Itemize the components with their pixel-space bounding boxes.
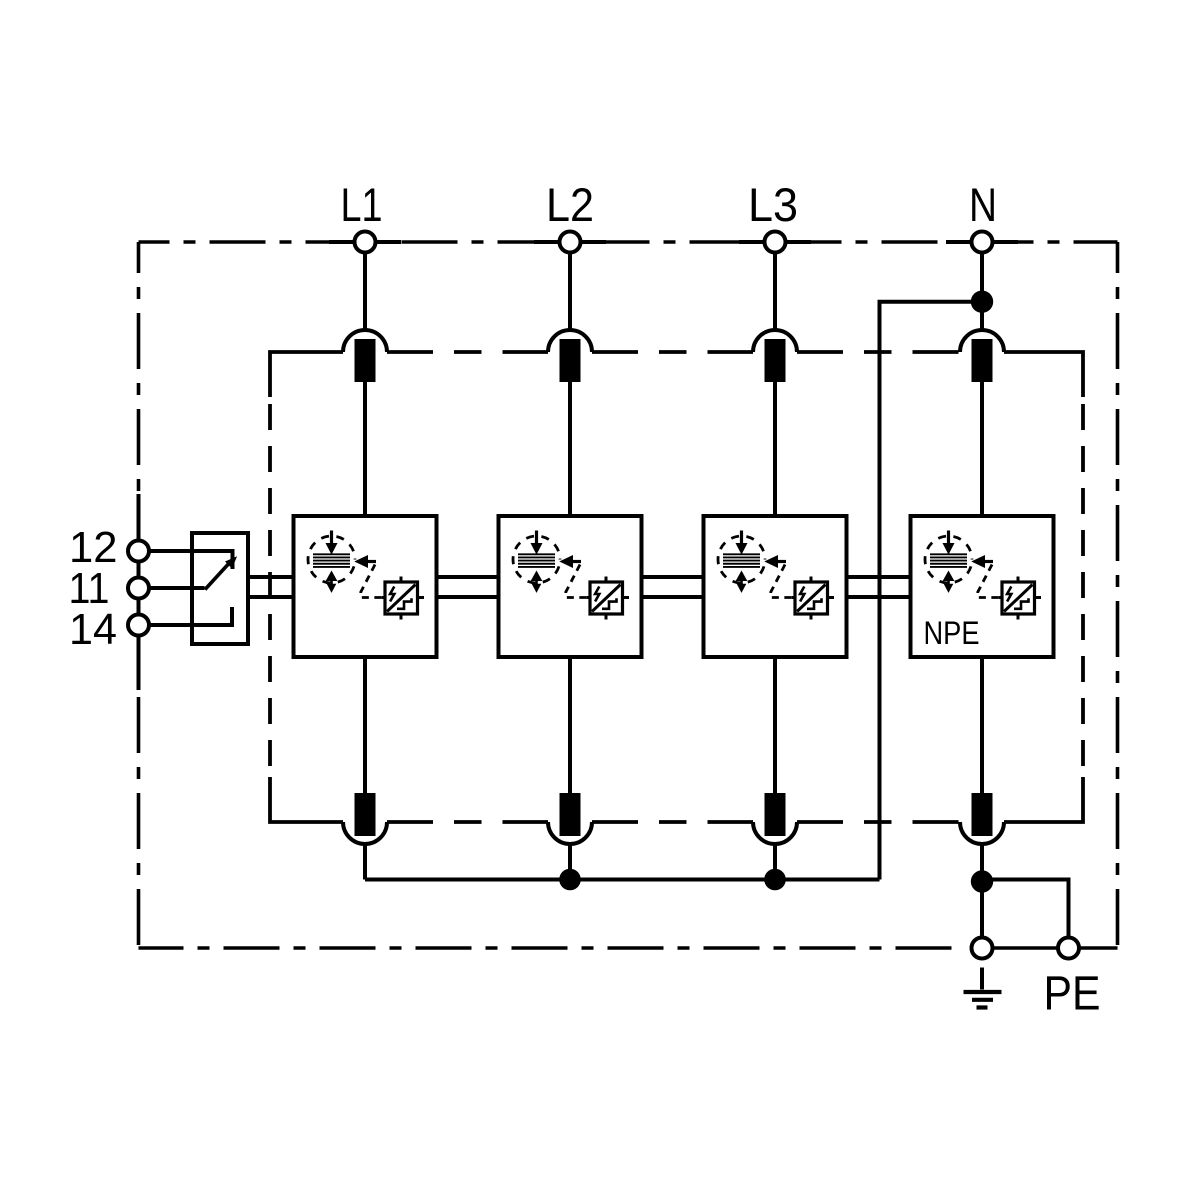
terminal 11 (128, 578, 149, 599)
terminal 14 (128, 615, 149, 636)
varistor lightning pictogram L1 (390, 587, 394, 602)
base part boundary top dashed segment 1 (387, 350, 548, 354)
spark gap enclosure dashed circle L3 (718, 536, 765, 583)
spark gap electrode stack L1 (313, 553, 350, 555)
terminal L3 (765, 232, 786, 253)
node N junction to PE path (971, 291, 993, 313)
wire N junction to PE terminal link (982, 880, 1069, 938)
plug contact socket arc lower L3 (753, 822, 797, 844)
plug contact socket arc upper L1 (343, 330, 387, 352)
wire lower plug to equipotential bus L1 (363, 845, 367, 880)
SPD module box L3 (704, 516, 847, 657)
svg-text:L3: L3 (748, 178, 798, 231)
terminal L1 (355, 232, 376, 253)
trigger control dashed link L3 (771, 565, 795, 598)
wire upper plug to module L1 (363, 382, 367, 516)
wire module to lower plug L3 (773, 657, 777, 793)
terminal L2 (560, 232, 581, 253)
base part boundary top-right corner segment (1004, 352, 1083, 397)
svg-text:L2: L2 (546, 178, 594, 231)
wire monitoring lower segment 1 (248, 595, 294, 599)
plug contact pin lower L2 (560, 793, 581, 836)
varistor surge-step pictogram L3 (807, 598, 822, 609)
SPD module box L1 (294, 516, 437, 657)
wire monitoring lower segment 3 (642, 595, 704, 599)
wire terminal 12 to NC contact (149, 551, 233, 569)
plug contact socket arc lower L2 (548, 822, 592, 844)
plug contact socket arc lower N (960, 822, 1004, 844)
wire L2 terminal drop (568, 252, 572, 332)
SPD module box N (911, 516, 1054, 657)
varistor surge-step pictogram L2 (602, 598, 617, 609)
trigger arrow L1 (356, 556, 368, 567)
wire stub terminal L1 (329, 240, 401, 244)
ground terminal circle (972, 938, 993, 959)
spark gap upper arrow N (947, 531, 950, 545)
wire stub terminal L2 (534, 240, 606, 244)
spark gap lower double arrow L3 (737, 572, 747, 581)
base part boundary right dashed edge (1081, 404, 1085, 770)
wire upper plug to module L3 (773, 382, 777, 516)
device enclosure border left edge (137, 242, 141, 948)
spark gap lower double arrow L1 (327, 572, 337, 581)
spark gap lower double arrow L2 (532, 572, 542, 581)
wire upper plug to module N (980, 382, 984, 516)
node junction L2 bus (559, 869, 581, 891)
base part boundary left dashed edge (268, 404, 272, 770)
plug contact socket arc upper L3 (753, 330, 797, 352)
base part boundary bottom dashed segment 2 (592, 820, 753, 824)
svg-text:NPE: NPE (924, 615, 980, 651)
spark gap electrode stack N (930, 553, 967, 555)
wire monitoring upper segment 4 (847, 575, 911, 579)
trigger control dashed link N (978, 565, 1002, 598)
wire N junction to upper plug contact (980, 302, 984, 332)
SPD module box L2 (499, 516, 642, 657)
varistor element L2 (590, 582, 623, 614)
plug contact pin lower L1 (355, 793, 376, 836)
spark gap electrode stack L2 (518, 553, 555, 555)
wire module to lower plug L1 (363, 657, 367, 793)
spark gap upper arrow L1 (330, 531, 333, 545)
wire monitoring upper segment 3 (642, 575, 704, 579)
wire bus riser to N junction (880, 302, 972, 880)
base part boundary bottom dashed segment 3 (797, 820, 960, 824)
plug contact socket arc upper N (960, 330, 1004, 352)
node junction N bottom (971, 870, 993, 892)
wire stub terminal L3 (739, 240, 811, 244)
svg-text:PE: PE (1044, 968, 1101, 1021)
wire module to lower plug N (980, 657, 984, 793)
svg-text:L1: L1 (341, 178, 383, 231)
varistor element L1 (385, 582, 418, 614)
wire upper plug to module L2 (568, 382, 572, 516)
plug contact pin lower N (972, 793, 993, 836)
terminal 12 (128, 541, 149, 562)
wire PE bottom solid segment (980, 946, 1118, 950)
trigger control dashed link L1 (361, 565, 385, 598)
plug contact pin upper L2 (560, 339, 581, 382)
wire equipotential bus (365, 878, 880, 882)
trigger arrow N (973, 556, 985, 567)
wire lower plug to equipotential bus L2 (568, 845, 572, 880)
plug contact pin lower L3 (765, 793, 786, 836)
varistor element L3 (795, 582, 828, 614)
changeover contact box FM (192, 533, 248, 644)
svg-text:14: 14 (69, 605, 117, 654)
plug contact pin upper L3 (765, 339, 786, 382)
varistor surge-step pictogram L1 (397, 598, 412, 609)
base part boundary bottom dashed segment 1 (387, 820, 548, 824)
wire L3 terminal drop (773, 252, 777, 332)
spark gap enclosure dashed circle L1 (308, 536, 355, 583)
wire N junction to ground terminal (980, 881, 984, 938)
spark gap enclosure dashed circle L2 (513, 536, 560, 583)
varistor element N (1002, 582, 1035, 614)
spark gap upper arrow L3 (740, 531, 743, 545)
plug contact socket arc lower L1 (343, 822, 387, 844)
varistor surge-step pictogram N (1014, 598, 1029, 609)
base part boundary bottom-right corner segment (1004, 777, 1083, 822)
wire monitoring upper segment 1 (248, 575, 294, 579)
wire lower plug to equipotential bus N (980, 845, 984, 882)
changeover contact moving arm (205, 560, 233, 590)
varistor lightning pictogram N (1007, 587, 1011, 602)
spark gap enclosure dashed circle N (925, 536, 972, 583)
wire terminal 14 to NO contact (149, 607, 233, 625)
svg-text:N: N (969, 178, 997, 231)
plug contact pin upper L1 (355, 339, 376, 382)
terminal PE (1058, 938, 1079, 959)
wire N terminal to junction (980, 252, 984, 302)
wire stub signalling terminals (137, 494, 141, 690)
wire monitoring lower segment 4 (847, 595, 911, 599)
trigger arrow L3 (766, 556, 778, 567)
wire stub terminal N (946, 240, 1018, 244)
trigger control dashed link L2 (566, 565, 590, 598)
trigger arrow L2 (561, 556, 573, 567)
base part boundary top dashed segment 2 (592, 350, 753, 354)
device enclosure border right edge (1116, 242, 1120, 948)
wire monitoring upper segment 2 (437, 575, 499, 579)
spark gap lower double arrow N (944, 572, 954, 581)
varistor lightning pictogram L3 (800, 587, 804, 602)
plug contact pin upper N (972, 339, 993, 382)
wire terminal 11 to common contact (149, 586, 205, 590)
device enclosure border top edge (139, 240, 1118, 244)
wire monitoring lower segment 2 (437, 595, 499, 599)
wire L1 terminal drop (363, 252, 367, 332)
varistor lightning pictogram L2 (595, 587, 599, 602)
base part boundary bottom-left corner segment (270, 777, 343, 822)
base part boundary top-left corner segment (270, 352, 343, 397)
spark gap upper arrow L2 (535, 531, 538, 545)
base part boundary top dashed segment 3 (797, 350, 960, 354)
plug contact socket arc upper L2 (548, 330, 592, 352)
node junction L3 bus (764, 869, 786, 891)
device enclosure border bottom edge (139, 946, 954, 950)
spark gap electrode stack L3 (723, 553, 760, 555)
wire module to lower plug L2 (568, 657, 572, 793)
earth ground symbol (980, 968, 984, 990)
wire lower plug to equipotential bus L3 (773, 845, 777, 880)
terminal N (972, 232, 993, 253)
